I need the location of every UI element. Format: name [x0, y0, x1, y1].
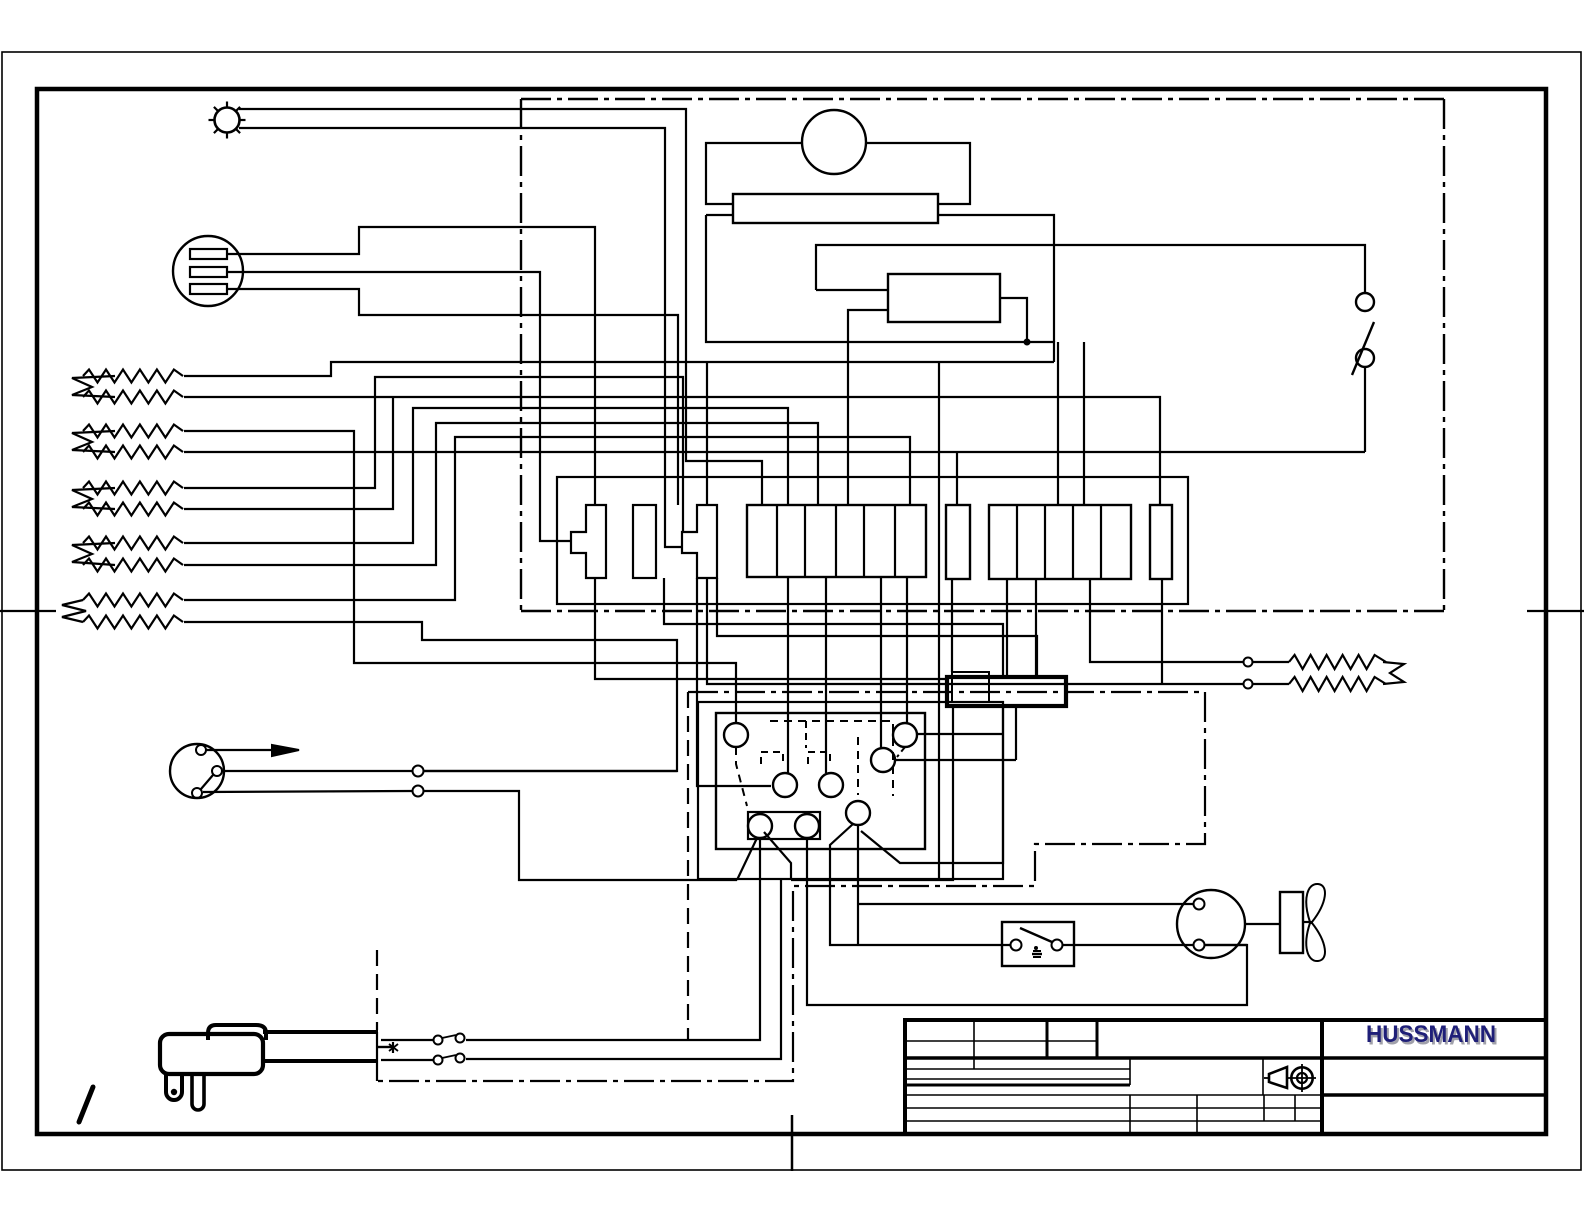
wire capacitor to relay: [1000, 298, 1027, 342]
drain pan heater H6: [1289, 655, 1386, 669]
power plug P2 body: [160, 1034, 263, 1074]
wire relay T7 right diagonal: [764, 832, 791, 880]
fan switch blade: [1020, 928, 1052, 942]
wire connector pin1 lead: [227, 227, 595, 505]
wire lamp bottom lead: [239, 128, 682, 547]
wire run capacitor top: [816, 245, 1365, 293]
heater H1 defrost: [83, 370, 183, 383]
heater H2 defrost: [83, 425, 183, 438]
terminal strip TB2: [989, 505, 1131, 579]
wire TB to relay T4: [697, 578, 771, 786]
indicator lamp DS1: [215, 108, 240, 133]
border tick bottom: [791, 1115, 794, 1171]
power plug barrel: [263, 1030, 378, 1034]
title block vertical divider: [1320, 1020, 1324, 1134]
thermostat blade: [201, 775, 213, 789]
wire drain heater bottom gap: [1253, 683, 1289, 685]
wire H2 stub: [956, 452, 958, 505]
relay box B1: [706, 215, 1054, 362]
wire to fan motor: [858, 903, 1194, 905]
plug prong 2: [192, 1075, 204, 1110]
wire H2 top lead: [184, 431, 736, 723]
thermostat capillary arrow: [206, 749, 285, 751]
fan hub: [1280, 892, 1303, 953]
power plug P2 cord boot: [208, 1025, 266, 1040]
splice terminal: [413, 766, 424, 777]
terminal TB-B: [946, 505, 970, 579]
title block lower verticals: [1129, 1058, 1131, 1085]
wire connector pin3 lead: [227, 289, 678, 505]
heater H3 defrost: [83, 482, 183, 495]
wire B1 to TB2 stubs: [1057, 342, 1059, 505]
title block rows: [905, 1078, 1130, 1080]
defrost timer relay K1 body: [716, 713, 925, 849]
plug prong 1: [166, 1075, 182, 1100]
border tick right: [1527, 610, 1584, 612]
title block top verticals: [973, 1020, 975, 1058]
title block row line B thick: [905, 1056, 1546, 1059]
terminal block enclosure: [557, 477, 1188, 604]
wire H5 top lead: [184, 437, 910, 600]
case boundary dash-dot left: [520, 99, 522, 611]
wire H1 bottom lead: [184, 397, 1160, 505]
connector P1 3-pin: [173, 236, 243, 306]
wire thermostat NO lead: [203, 791, 412, 792]
wire bus to defrost thermostat: [791, 706, 953, 880]
wire H1 stub to control: [938, 362, 940, 879]
wire switch bottom lead: [1364, 367, 1366, 452]
wire motor neutral junction: [1204, 944, 1247, 946]
wire relay T6 right branch to defrost relay: [861, 706, 1003, 863]
wire TB out to drain heater: [707, 578, 1243, 684]
junction dot: [1024, 339, 1031, 346]
thermal fuse F2: [682, 505, 717, 578]
wire TB to relay T4 top: [787, 577, 789, 773]
thermal fuse F1: [571, 505, 606, 578]
wire relay T3 right lead: [895, 759, 1016, 761]
wire plug line lead: [381, 1039, 433, 1041]
fan switch bimetal mark: [1033, 950, 1041, 952]
control box outer: [698, 702, 1003, 879]
border tick left: [0, 610, 56, 612]
wire TB to drain heater bottom stub: [1161, 579, 1163, 684]
evaporator fan motor M2: [1177, 890, 1245, 958]
evaporator boundary dashed vertical: [687, 692, 689, 1040]
plug ground mark: [392, 1042, 394, 1053]
wire capacitor left lead: [848, 310, 888, 505]
wire fan switch to motor: [1062, 944, 1194, 946]
fan delay switch S2 box: [1002, 922, 1074, 966]
wire plug neutral riser: [466, 880, 781, 1059]
plug neutral splice: [434, 1056, 443, 1065]
terminal strip TB1: [747, 505, 926, 577]
wire motor to fan hub: [1245, 923, 1280, 925]
relay terminal T3: [871, 748, 895, 772]
defrost heater relay K2 thick box: [947, 677, 1066, 706]
wire capacitor bottom edge: [816, 289, 888, 291]
wire H4 bottom lead: [184, 423, 818, 565]
wire relay T8 to fan motor neutral: [807, 838, 1247, 1005]
evaporator boundary dash-dot: [377, 692, 1205, 1081]
third angle projection symbol: [1269, 1067, 1287, 1088]
wire relay T2 to defrost relay: [917, 733, 1003, 735]
splice terminal: [413, 786, 424, 797]
case boundary dash-dot top: [521, 98, 1444, 100]
wire H1 top lead: [184, 362, 1054, 376]
wire TB to defrost relay thin: [951, 579, 953, 672]
wire vertical to defrost relay: [1015, 708, 1017, 760]
wire relay T6 down lead: [857, 825, 859, 945]
wire lamp top lead: [239, 109, 762, 505]
overload protector R1: [733, 194, 938, 223]
heater H4 defrost: [83, 537, 183, 550]
wire H3 bottom lead: [184, 397, 393, 509]
relay terminal T6: [846, 801, 870, 825]
wire bus 624 to relay: [664, 578, 1003, 677]
wire H5 bottom lead: [184, 622, 677, 771]
revision slash mark: [79, 1087, 93, 1122]
wire TB out bus 636: [717, 578, 1037, 677]
relay terminal T5: [819, 773, 843, 797]
wire H1 stub to terminal: [706, 362, 708, 505]
wire TB to relay T5: [825, 577, 827, 773]
wire H4 top lead: [184, 408, 788, 543]
splice terminal drain heater top: [1244, 658, 1253, 667]
wire relay T6 to fan switch: [830, 824, 1011, 945]
relay terminal T7: [748, 814, 772, 838]
thermostat switch S1 contacts: [1356, 293, 1374, 311]
plug line splice: [434, 1036, 443, 1045]
switch S1 blade: [1352, 322, 1374, 375]
wire thermostat common lead: [222, 770, 413, 772]
relay terminal T8: [795, 814, 819, 838]
wire connector pin2 lead: [227, 272, 571, 541]
wire H2 bottom lead: [184, 451, 1365, 453]
title block small row: [905, 1068, 1130, 1070]
plug boundary dashed vertical: [376, 950, 378, 1030]
terminal TB-A: [633, 505, 656, 578]
defrost termination thermostat thin box: [952, 672, 989, 702]
plug ground stub: [377, 1046, 392, 1048]
wire plug neutral lead: [381, 1059, 433, 1061]
svg-text:HUSSMANN: HUSSMANN: [1366, 1021, 1496, 1048]
relay terminal T4: [773, 773, 797, 797]
wire TB to relay T3: [880, 577, 882, 748]
title block row line A: [905, 1040, 1097, 1042]
wire TB to drain heater top: [1090, 579, 1243, 662]
case boundary dash-dot right: [1443, 99, 1445, 611]
case boundary dash-dot bottom: [521, 610, 1444, 612]
relay terminal T2: [893, 723, 917, 747]
wire diagonal to relay T7: [737, 838, 757, 880]
thermostat TH1: [170, 744, 224, 798]
wire H3 top lead: [184, 377, 683, 532]
relay terminal T1: [724, 723, 748, 747]
terminal TB-C: [1150, 505, 1172, 579]
compressor motor M1: [802, 110, 866, 174]
wire relay T7 to plug line: [466, 838, 760, 1040]
relay contact box T7-T8: [748, 812, 820, 839]
title block outline: [905, 1020, 1546, 1134]
wire TB to relay T2: [906, 577, 908, 723]
fan blades: [1306, 884, 1325, 922]
compressor circuit box: [706, 143, 802, 204]
capacitor C1: [888, 274, 1000, 322]
relay internal dashed wiring: [770, 721, 893, 796]
splice terminal drain heater bottom: [1244, 680, 1253, 689]
wire drain heater top gap: [1253, 661, 1289, 663]
wire TB stubs to defrost relay: [1006, 579, 1008, 677]
wire TB out to heater relay left: [595, 578, 947, 679]
heater H5 defrost: [83, 594, 183, 607]
